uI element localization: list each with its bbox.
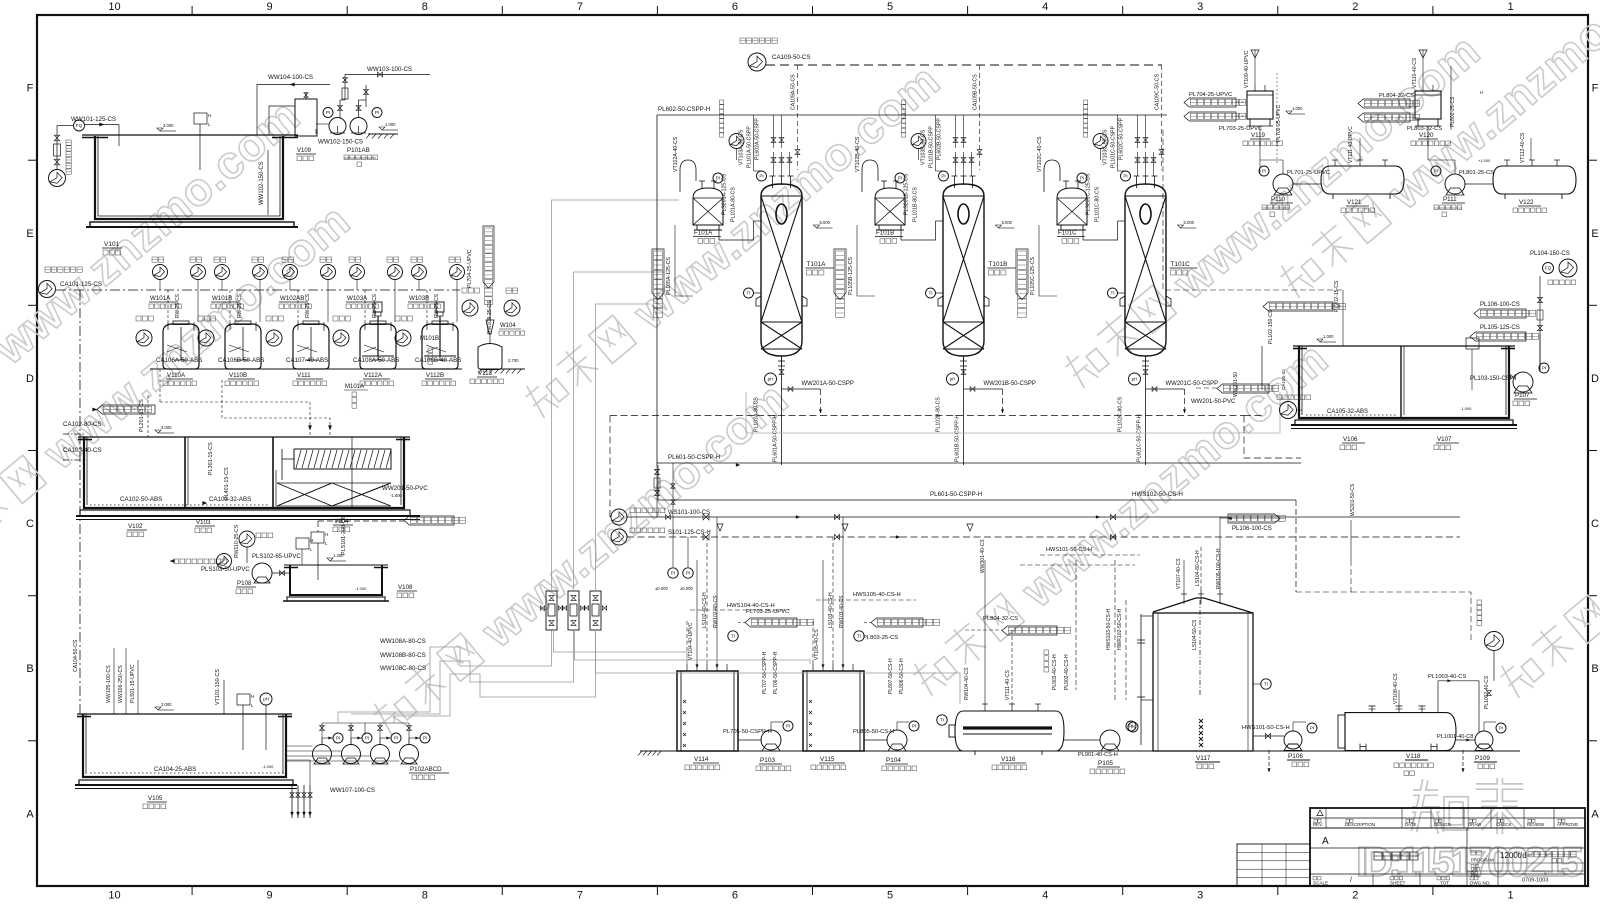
svg-text:PL101A-80-CS: PL101A-80-CS xyxy=(731,187,737,222)
svg-text:HWS102-50-CS-H: HWS102-50-CS-H xyxy=(1132,491,1183,498)
svg-text:APPROVE: APPROVE xyxy=(1557,822,1578,827)
strainer boxes trio xyxy=(546,591,557,630)
svg-text:WW108A-80-CS: WW108A-80-CS xyxy=(380,638,426,645)
svg-text:PL805-50-CS-H: PL805-50-CS-H xyxy=(853,729,894,735)
horizontal tank V122 xyxy=(1493,166,1576,194)
ground line bottom xyxy=(640,750,1520,752)
svg-text:F101A: F101A xyxy=(694,230,713,237)
CA109 drop xyxy=(797,65,799,170)
svg-text:PL806-50-CS-H: PL806-50-CS-H xyxy=(899,658,905,694)
svg-text:PL602C-50-CSPP: PL602C-50-CSPP xyxy=(1119,117,1125,160)
svg-text:V121: V121 xyxy=(1347,199,1362,206)
blower air top CA109 xyxy=(740,38,745,43)
svg-text:VT107-40-CS: VT107-40-CS xyxy=(1176,558,1182,589)
pennant to V108 xyxy=(1217,384,1269,393)
svg-text:H: H xyxy=(208,113,211,118)
svg-text:10: 10 xyxy=(108,1,120,13)
dosing tank V110B xyxy=(225,324,261,369)
svg-text:V116: V116 xyxy=(1001,756,1016,763)
svg-text:8: 8 xyxy=(422,1,428,13)
svg-text:RW105-100-CS-H: RW105-100-CS-H xyxy=(1216,548,1222,589)
svg-text:CA105-32: CA105-32 xyxy=(1281,369,1286,390)
svg-text:PL703-25-UPVC: PL703-25-UPVC xyxy=(746,609,789,615)
backwash label vertical xyxy=(902,100,906,104)
svg-text:PL1003-40-CS: PL1003-40-CS xyxy=(1428,674,1466,680)
vessel V116 xyxy=(955,711,1064,751)
svg-text:CA102-80-CS: CA102-80-CS xyxy=(63,421,102,428)
instrument bubble at V104 xyxy=(296,538,309,549)
svg-text:F101B: F101B xyxy=(876,230,894,237)
svg-text:+1.000: +1.000 xyxy=(1478,158,1491,163)
horizontal tank V121 xyxy=(1321,166,1404,194)
svg-text:3.000: 3.000 xyxy=(163,123,174,128)
feed circles xyxy=(350,265,365,280)
svg-text:VT102A-40-CS: VT102A-40-CS xyxy=(673,136,679,172)
vertical arrow label box xyxy=(834,249,846,300)
wire CA109 dashed main xyxy=(766,64,1162,66)
svg-text:PL902-40-CS-H: PL902-40-CS-H xyxy=(1064,654,1070,690)
PI pair xyxy=(668,568,678,578)
svg-text:PL401-15-CS: PL401-15-CS xyxy=(224,467,230,500)
feed circles xyxy=(283,265,298,280)
svg-text:T101C: T101C xyxy=(1171,261,1191,268)
svg-text:W104: W104 xyxy=(500,323,516,329)
svg-text:WW107-100-CS: WW107-100-CS xyxy=(330,787,375,794)
svg-text:V109: V109 xyxy=(297,148,312,154)
svg-text:PL601-50-CSPP-H: PL601-50-CSPP-H xyxy=(930,491,982,498)
svg-text:PLS201B-125-CS: PLS201B-125-CS xyxy=(904,173,910,215)
svg-text:CHECK: CHECK xyxy=(1496,822,1511,827)
svg-text:B: B xyxy=(26,663,33,675)
svg-text:DATE: DATE xyxy=(1405,822,1416,827)
svg-text:PL105B-125-CS: PL105B-125-CS xyxy=(848,257,854,295)
svg-text:W102AB: W102AB xyxy=(280,295,304,302)
svg-text:RW110-25-CS: RW110-25-CS xyxy=(234,524,240,558)
svg-text:PL801-25-CS: PL801-25-CS xyxy=(1459,170,1494,176)
svg-text:PL105-125-CS: PL105-125-CS xyxy=(1480,325,1520,331)
svg-text:5: 5 xyxy=(887,890,893,902)
piping V117 top xyxy=(1183,560,1185,590)
svg-text:WW101-125-CS: WW101-125-CS xyxy=(71,116,116,123)
svg-text:WW201-50-PVC: WW201-50-PVC xyxy=(1191,399,1236,405)
nozzles top xyxy=(1136,176,1138,188)
svg-text:PLS201A-125-CS: PLS201A-125-CS xyxy=(722,173,728,215)
tank V113 xyxy=(478,344,502,370)
svg-text:TI: TI xyxy=(731,634,735,639)
svg-text:PI: PI xyxy=(1131,725,1135,730)
pump W101B metering xyxy=(198,330,214,346)
svg-text:V106: V106 xyxy=(1343,436,1358,443)
svg-text:CA104-50-CS: CA104-50-CS xyxy=(73,639,79,672)
svg-text:WW108B-80-CS: WW108B-80-CS xyxy=(380,652,426,659)
svg-text:VT101-150-CS: VT101-150-CS xyxy=(215,669,221,705)
wire PL102-150 from columns xyxy=(1163,130,1343,290)
tank V101 xyxy=(95,136,283,219)
svg-text:PL601B-50-CSPP-H: PL601B-50-CSPP-H xyxy=(955,414,961,462)
svg-text:A: A xyxy=(1591,808,1599,820)
svg-text:6: 6 xyxy=(732,1,738,13)
svg-text:WW105-100-CS: WW105-100-CS xyxy=(106,665,112,703)
wire WW108 continuations xyxy=(554,630,688,664)
svg-text:P109: P109 xyxy=(1475,755,1490,762)
svg-text:PL601-50-CSPP-H: PL601-50-CSPP-H xyxy=(668,454,720,461)
svg-text:RW-25-CS: RW-25-CS xyxy=(175,293,181,318)
svg-text:PI: PI xyxy=(1262,169,1266,174)
svg-text:LS103-40-CS-H: LS103-40-CS-H xyxy=(828,592,834,628)
svg-text:PL704-25-UPVC: PL704-25-UPVC xyxy=(1189,92,1232,98)
svg-text:PI: PI xyxy=(941,174,945,179)
small blower top xyxy=(729,134,744,149)
svg-text:PI: PI xyxy=(1310,726,1314,731)
svg-text:V117: V117 xyxy=(1196,755,1211,762)
svg-text:2: 2 xyxy=(1352,1,1358,13)
svg-text:WW106-250-CS: WW106-250-CS xyxy=(118,665,124,703)
svg-text:CA109A-50-CS: CA109A-50-CS xyxy=(791,74,797,110)
svg-text:5.000: 5.000 xyxy=(1184,220,1195,225)
wall V103|V104 xyxy=(272,437,274,508)
svg-text:WW301-40-CS: WW301-40-CS xyxy=(980,539,986,573)
tank V118 xyxy=(1345,713,1456,751)
svg-text:V110B: V110B xyxy=(229,372,247,379)
CA109 drop xyxy=(1161,65,1163,170)
svg-text:V122: V122 xyxy=(1519,199,1534,206)
WW201 branch xyxy=(964,388,1003,390)
svg-text:VT111-40-CS: VT111-40-CS xyxy=(1005,670,1011,700)
svg-text:1: 1 xyxy=(1507,1,1513,13)
svg-text:7: 7 xyxy=(577,1,583,13)
svg-text:P110: P110 xyxy=(1271,196,1286,203)
pump P105 xyxy=(1100,730,1120,750)
svg-text:PLS201C-125-CS: PLS201C-125-CS xyxy=(1086,173,1092,215)
svg-text:A: A xyxy=(1322,836,1329,847)
svg-text:F: F xyxy=(27,83,34,95)
svg-text:TI: TI xyxy=(857,634,861,639)
svg-text:pH: pH xyxy=(1132,377,1138,382)
svg-text:PL803-25-CS: PL803-25-CS xyxy=(863,635,898,641)
svg-text:-1.000: -1.000 xyxy=(262,764,274,769)
svg-text:PLS102-65-UPVC: PLS102-65-UPVC xyxy=(252,554,301,560)
svg-text:PL705-50-CSPP-H: PL705-50-CSPP-H xyxy=(723,729,772,735)
svg-text:/: / xyxy=(1350,877,1352,884)
pumps P101AB xyxy=(329,118,346,135)
svg-text:C: C xyxy=(26,518,34,530)
svg-text:TI: TI xyxy=(1110,291,1114,296)
support lugs xyxy=(756,296,761,306)
external pipe left V117 xyxy=(1140,614,1142,745)
svg-text:HWS101-50-CS-H: HWS101-50-CS-H xyxy=(1046,547,1092,553)
svg-text:PLS101-200-CS: PLS101-200-CS xyxy=(341,515,347,555)
svg-text:H: H xyxy=(325,532,328,537)
agitator motors V112A V112B xyxy=(374,302,382,312)
svg-text:VT110-40-CS: VT110-40-CS xyxy=(1412,57,1418,88)
svg-text:V112A: V112A xyxy=(364,372,383,379)
pump W102AB metering xyxy=(266,330,282,346)
svg-text:FQ: FQ xyxy=(1545,266,1552,271)
svg-text:PL706-50-CSPP-H: PL706-50-CSPP-H xyxy=(773,651,779,694)
svg-text:2.700: 2.700 xyxy=(508,358,519,363)
support lugs xyxy=(938,296,943,306)
svg-text:P102ABCD: P102ABCD xyxy=(410,766,442,773)
svg-text:PI: PI xyxy=(375,110,379,115)
svg-text:P108: P108 xyxy=(237,580,252,587)
svg-text:WW108C-80-CS: WW108C-80-CS xyxy=(380,665,426,672)
ground hatch V113 xyxy=(480,368,525,370)
svg-text:REV.: REV. xyxy=(1313,822,1323,827)
instruments T101A xyxy=(757,171,767,181)
svg-text:5.000: 5.000 xyxy=(1002,220,1013,225)
svg-text:V108: V108 xyxy=(398,584,413,591)
svg-text:P107: P107 xyxy=(1515,392,1530,399)
pump P110 xyxy=(1273,174,1293,194)
dosing tank V110A xyxy=(163,324,199,369)
svg-text:D: D xyxy=(1591,373,1599,385)
bottom nozzle xyxy=(1145,356,1147,366)
svg-text:PI: PI xyxy=(365,736,369,741)
filter F101B xyxy=(875,188,905,225)
svg-text:P104: P104 xyxy=(886,757,901,764)
svg-text:PI: PI xyxy=(336,736,340,741)
nozzles top xyxy=(954,176,956,188)
svg-text:V102: V102 xyxy=(128,523,143,530)
svg-text:PL201-15-CS: PL201-15-CS xyxy=(139,399,145,432)
pump M104 xyxy=(462,300,478,316)
WW201 branch xyxy=(1146,388,1185,390)
svg-text:PI: PI xyxy=(394,736,398,741)
small blower top xyxy=(1093,134,1108,149)
svg-text:6: 6 xyxy=(732,890,738,902)
valve cluster left xyxy=(656,463,658,517)
bottom nozzle xyxy=(963,356,965,366)
svg-text:PROGRAM: PROGRAM xyxy=(1471,858,1494,863)
svg-text:PL102C-80-CS: PL102C-80-CS xyxy=(1118,396,1124,432)
svg-text:PL601C-50-CSPP-H: PL601C-50-CSPP-H xyxy=(1137,414,1143,462)
svg-text:V103: V103 xyxy=(196,519,211,526)
labels basins xyxy=(155,430,161,433)
bottom piping column xyxy=(781,366,783,465)
recycle piping xyxy=(1493,651,1495,681)
svg-text:M101B: M101B xyxy=(420,336,439,342)
svg-text:1.000: 1.000 xyxy=(1323,334,1334,339)
svg-text:VT102B-40-CS: VT102B-40-CS xyxy=(855,136,861,172)
svg-text:PL105C-125-CS: PL105C-125-CS xyxy=(1030,256,1036,295)
level instr V107 xyxy=(1466,338,1479,349)
svg-text:9: 9 xyxy=(267,890,273,902)
svg-text:PI: PI xyxy=(1499,726,1503,731)
svg-text:VT109-40-UPVC: VT109-40-UPVC xyxy=(1244,50,1250,88)
vertical arrow label box xyxy=(652,249,664,300)
svg-text:PI: PI xyxy=(1080,176,1084,181)
filter F101A xyxy=(693,188,723,225)
svg-text:1.000: 1.000 xyxy=(1292,106,1303,111)
svg-text:CA106B-50-ABS: CA106B-50-ABS xyxy=(218,357,264,364)
blower V106 xyxy=(1280,402,1297,419)
svg-text:TI: TI xyxy=(1264,682,1268,687)
svg-text:2: 2 xyxy=(1352,890,1358,902)
support lugs xyxy=(1120,296,1125,306)
dosing tank V112B xyxy=(422,324,458,369)
svg-text:E: E xyxy=(26,228,33,240)
svg-text:UNIT: UNIT xyxy=(1471,866,1481,871)
basin V105 xyxy=(83,714,286,777)
blower steam xyxy=(611,529,627,545)
svg-text:WW201C-50-CSPP: WW201C-50-CSPP xyxy=(1166,381,1219,387)
svg-text:±0.000: ±0.000 xyxy=(680,586,693,591)
svg-text:RW102-40-CS: RW102-40-CS xyxy=(713,595,719,628)
svg-text:H: H xyxy=(251,694,254,699)
bottom piping column xyxy=(963,366,965,465)
pump P104 xyxy=(887,730,907,750)
svg-text:WW201-50-PVC: WW201-50-PVC xyxy=(382,485,428,492)
svg-text:CA105-32-ABS: CA105-32-ABS xyxy=(1327,409,1368,415)
CA109 drop xyxy=(979,65,981,170)
svg-text:PL202-15-CS: PL202-15-CS xyxy=(1334,280,1340,312)
svg-text:PL101C-50-CSPP: PL101C-50-CSPP xyxy=(1111,125,1117,168)
svg-text:PL602A-50-CSPP: PL602A-50-CSPP xyxy=(755,118,761,160)
svg-text:9: 9 xyxy=(267,1,273,13)
svg-text:CA109B-50-CS: CA109B-50-CS xyxy=(973,74,979,110)
feed from V110AB xyxy=(1263,302,1333,311)
dosing tank V112A xyxy=(360,324,396,369)
blower recycle xyxy=(1485,632,1504,651)
outlet riser FQ xyxy=(1539,290,1541,372)
valves above column xyxy=(953,158,958,163)
pump P107 xyxy=(1513,372,1533,392)
svg-text:V118: V118 xyxy=(1406,753,1421,760)
svg-text:PL102A-80-CS: PL102A-80-CS xyxy=(754,397,760,432)
pumps P102ABCD xyxy=(313,745,332,764)
backwash label vertical xyxy=(720,100,724,104)
curved inlet pipe xyxy=(862,160,878,170)
ground hatch at P101 xyxy=(368,133,398,135)
svg-text:PL106-100-CS: PL106-100-CS xyxy=(1480,302,1520,308)
blower raw water inlet xyxy=(49,170,66,187)
svg-text:VT108-40-CS: VT108-40-CS xyxy=(1393,673,1399,704)
small blower top xyxy=(911,134,926,149)
svg-text:W103B: W103B xyxy=(409,295,429,302)
svg-text:CA109-50-CS: CA109-50-CS xyxy=(772,54,811,61)
watermark bottom-right xyxy=(1412,780,1466,833)
svg-text:RW104-40-CS: RW104-40-CS xyxy=(964,667,970,700)
instruments V115 xyxy=(854,631,864,641)
tank V120 xyxy=(1415,91,1441,119)
backwash label vertical xyxy=(1084,100,1088,104)
svg-text:PL105A-125-CS: PL105A-125-CS xyxy=(666,257,672,295)
valves above column xyxy=(1135,158,1140,163)
svg-text:W101B: W101B xyxy=(212,295,232,302)
svg-text:V112B: V112B xyxy=(426,372,444,379)
svg-text:3: 3 xyxy=(1197,1,1203,13)
svg-text:7: 7 xyxy=(577,890,583,902)
svg-text:P105: P105 xyxy=(1098,760,1113,767)
svg-text:WW201B-50-CSPP: WW201B-50-CSPP xyxy=(984,381,1036,387)
curved inlet pipe xyxy=(680,160,696,170)
tank V119 xyxy=(1247,91,1273,119)
pump W103B metering xyxy=(395,330,411,346)
svg-text:-1.000: -1.000 xyxy=(390,493,403,498)
svg-text:1200t/d: 1200t/d xyxy=(1500,851,1527,860)
svg-text:CA109C-50-CS: CA109C-50-CS xyxy=(1155,73,1161,110)
pump P103 xyxy=(761,730,781,750)
svg-text:REVIEW: REVIEW xyxy=(1527,822,1545,827)
svg-text:PI: PI xyxy=(671,571,675,576)
svg-text:±0.000: ±0.000 xyxy=(655,586,668,591)
curved inlet pipe xyxy=(1044,160,1060,170)
svg-text:V114: V114 xyxy=(694,756,709,763)
svg-text:H: H xyxy=(1480,90,1483,95)
svg-text:1: 1 xyxy=(1507,890,1513,902)
nozzles top xyxy=(772,176,774,188)
svg-text:PL804-32-CS: PL804-32-CS xyxy=(983,616,1018,622)
svg-text:PL501-15-UPVC: PL501-15-UPVC xyxy=(130,664,136,703)
svg-text:DESCRIPTION: DESCRIPTION xyxy=(1345,822,1375,827)
svg-text:V105: V105 xyxy=(148,795,163,802)
svg-text:4: 4 xyxy=(1042,1,1048,13)
svg-text:V115: V115 xyxy=(820,756,835,763)
svg-text:D: D xyxy=(26,373,34,385)
svg-text:TI: TI xyxy=(940,718,944,723)
manhole xyxy=(1140,204,1151,224)
svg-text:FQ: FQ xyxy=(76,123,83,128)
svg-text:PL903-40-CS-H: PL903-40-CS-H xyxy=(1052,654,1058,690)
discharge risers WW103 xyxy=(339,100,341,118)
piping filter to column xyxy=(718,230,720,240)
instruments T101B xyxy=(939,171,949,181)
svg-text:CA108B-40-ABS: CA108B-40-ABS xyxy=(415,357,461,364)
svg-text:HWS101-50-CS-H: HWS101-50-CS-H xyxy=(1242,725,1290,731)
svg-text:PL901-40-CS-H: PL901-40-CS-H xyxy=(1078,752,1118,758)
svg-text:WW102-150-CS: WW102-150-CS xyxy=(318,139,363,146)
svg-text:PI: PI xyxy=(912,724,916,729)
feed circles xyxy=(215,265,230,280)
svg-text:VT105-40-CS: VT105-40-CS xyxy=(814,629,820,660)
svg-text:DRAW: DRAW xyxy=(1468,822,1482,827)
svg-text:PI: PI xyxy=(786,724,790,729)
tank V109 xyxy=(295,99,317,136)
svg-text:TI: TI xyxy=(746,291,750,296)
title block xyxy=(1310,808,1585,886)
svg-text:VT112-40-CS: VT112-40-CS xyxy=(1520,132,1526,163)
svg-text:PL704-25-UPVC: PL704-25-UPVC xyxy=(467,249,473,288)
wire gray supply loops xyxy=(552,200,680,591)
pump P111 xyxy=(1445,174,1465,194)
svg-text:WW104-100-CS: WW104-100-CS xyxy=(268,74,313,81)
svg-text:WW201-50: WW201-50 xyxy=(1233,372,1239,397)
svg-text:PL104-150-CS: PL104-150-CS xyxy=(1530,251,1570,257)
svg-text:SCALE: SCALE xyxy=(1313,881,1328,886)
svg-text:PI: PI xyxy=(1542,366,1546,371)
svg-text:T101A: T101A xyxy=(807,261,827,268)
column T101A xyxy=(761,184,802,356)
svg-text:V119: V119 xyxy=(1251,132,1266,139)
svg-text:HWR102-50-CS-H: HWR102-50-CS-H xyxy=(1117,608,1123,650)
connect V119 to P110 xyxy=(1259,126,1261,174)
piping filter to column xyxy=(1082,230,1084,240)
svg-text:PI: PI xyxy=(326,110,330,115)
svg-text:VT111-40-UPVC: VT111-40-UPVC xyxy=(1348,126,1354,163)
svg-text:WS301-50-CS: WS301-50-CS xyxy=(1350,483,1356,516)
instruments V114 xyxy=(728,631,738,641)
pump P108 xyxy=(252,563,272,583)
svg-text:V110A: V110A xyxy=(167,372,186,379)
level instrument LSH V101 xyxy=(199,140,201,170)
svg-text:HWS103-50-CS-H: HWS103-50-CS-H xyxy=(1106,608,1112,650)
wire WW201 dashed main xyxy=(610,415,1244,417)
inclined settler V104 xyxy=(294,449,391,469)
svg-text:5.000: 5.000 xyxy=(820,220,831,225)
svg-text:PL101C-80-CS: PL101C-80-CS xyxy=(1095,186,1101,222)
left riser to columns xyxy=(609,416,611,521)
vertical arrow label box xyxy=(1016,249,1028,300)
